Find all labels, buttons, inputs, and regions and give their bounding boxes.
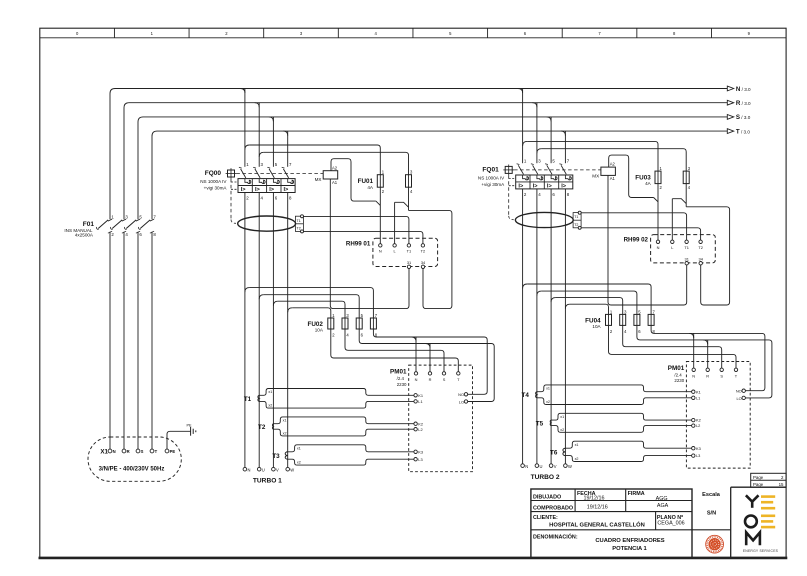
svg-text:I>: I> bbox=[518, 184, 524, 190]
fuse FU01-b bbox=[406, 170, 414, 194]
svg-text:T2: T2 bbox=[698, 245, 703, 250]
sheet reference arrow S / 3.0 bbox=[727, 114, 750, 121]
svg-text:x2: x2 bbox=[268, 404, 272, 408]
svg-text:T3: T3 bbox=[272, 453, 280, 460]
svg-text:T2: T2 bbox=[574, 223, 578, 227]
svg-text:T2: T2 bbox=[421, 249, 426, 254]
svg-text:MX: MX bbox=[315, 177, 322, 182]
title block bbox=[531, 487, 786, 558]
wire PE to earth bbox=[167, 431, 191, 449]
svg-text:I>: I> bbox=[241, 187, 247, 193]
section TURBO 1 feeder group bbox=[200, 145, 494, 485]
svg-text:R: R bbox=[127, 449, 130, 454]
wire T5 x1 to meter K2 bbox=[551, 413, 692, 420]
wire bus drop to FQ00 pole 1 bbox=[240, 89, 245, 167]
wire fuse 6 to meter R and LO bbox=[359, 329, 494, 402]
svg-text:N: N bbox=[657, 245, 660, 250]
wire T3 x1 to meter K3 bbox=[288, 445, 414, 452]
svg-text:FIRMA: FIRMA bbox=[628, 491, 645, 497]
svg-text:S: S bbox=[720, 373, 723, 378]
svg-text:N: N bbox=[692, 373, 695, 378]
svg-text:N: N bbox=[379, 249, 382, 254]
section TURBO 2 feeder group bbox=[478, 141, 772, 481]
svg-text:L1: L1 bbox=[418, 399, 422, 404]
svg-text:I>: I> bbox=[533, 184, 539, 190]
wire MX A1 to relay contact 31 bbox=[608, 175, 687, 305]
svg-text:R: R bbox=[706, 373, 709, 378]
svg-text:K2: K2 bbox=[696, 418, 701, 423]
svg-text:T6: T6 bbox=[550, 449, 558, 456]
svg-text:CLIENTE:: CLIENTE: bbox=[533, 515, 558, 521]
svg-text:L3: L3 bbox=[696, 453, 700, 458]
svg-text:x1: x1 bbox=[575, 443, 579, 447]
manual isolator F01 (INS MANUAL 4x2500A) bbox=[64, 215, 156, 238]
svg-text:U: U bbox=[262, 467, 265, 472]
svg-text:TURBO 2: TURBO 2 bbox=[531, 474, 560, 481]
wire FQ00 pole 2 output to TURBO 1 terminal bbox=[244, 193, 246, 468]
wire T3 x2 to meter L3 bbox=[288, 459, 414, 465]
svg-text:2230: 2230 bbox=[397, 382, 407, 387]
svg-text:PM01: PM01 bbox=[390, 369, 407, 376]
svg-text:T5: T5 bbox=[536, 420, 544, 427]
svg-text:K3: K3 bbox=[418, 449, 423, 454]
wire T4 x2 to meter L1 bbox=[537, 398, 692, 405]
wire fuse 8 to meter N and NO bbox=[373, 329, 487, 394]
svg-text:FQ01: FQ01 bbox=[482, 166, 499, 173]
wire fuse 6 to meter R and LO bbox=[637, 325, 772, 398]
svg-text:K2: K2 bbox=[418, 421, 423, 426]
svg-text:T4: T4 bbox=[522, 392, 530, 399]
svg-text:ENERGY SERVICES: ENERGY SERVICES bbox=[743, 549, 779, 553]
wire tap to power fuse 5 bbox=[537, 291, 637, 314]
svg-text:Page: Page bbox=[753, 475, 764, 480]
svg-text:NS 1000A IV: NS 1000A IV bbox=[200, 179, 227, 184]
earth-leakage relay RH99 01 bbox=[346, 238, 438, 268]
sheet reference arrow T / 3.0 bbox=[727, 128, 750, 135]
wire fuse 4 to meter S bbox=[623, 325, 722, 368]
wire T6 x2 to meter L3 bbox=[565, 456, 691, 462]
wire toroid T1 to relay bbox=[304, 216, 409, 243]
svg-text:S/N: S/N bbox=[707, 511, 716, 517]
fuse FU03-a bbox=[655, 166, 663, 190]
wire bus drop to FQ01 pole 7 bbox=[561, 131, 566, 163]
svg-text:K1: K1 bbox=[696, 389, 701, 394]
svg-text:T / 3.0: T / 3.0 bbox=[736, 128, 750, 135]
svg-text:RH99 02: RH99 02 bbox=[624, 237, 649, 244]
svg-text:W: W bbox=[290, 467, 294, 472]
svg-text:S: S bbox=[141, 449, 144, 454]
wire FU01-a to relay N bbox=[379, 187, 381, 244]
svg-text:FQ00: FQ00 bbox=[205, 170, 222, 177]
svg-text:R / 3.0: R / 3.0 bbox=[736, 100, 751, 107]
svg-text:TURBO 1: TURBO 1 bbox=[253, 478, 282, 485]
svg-text:x1: x1 bbox=[268, 390, 272, 394]
wire phase T from X1 to F01 bbox=[151, 232, 153, 449]
wire T1 x2 to meter L1 bbox=[259, 401, 414, 408]
svg-text:S / 3.0: S / 3.0 bbox=[736, 114, 751, 121]
vigi toroid CT for FQ00 bbox=[238, 215, 304, 233]
svg-text:CUADRO ENFRIADORES: CUADRO ENFRIADORES bbox=[595, 538, 664, 544]
svg-text:10A: 10A bbox=[592, 324, 601, 329]
wire bus drop to FQ01 pole 3 bbox=[532, 103, 537, 164]
wire FQ00 pole 6 output to TURBO 1 terminal bbox=[272, 193, 274, 468]
svg-text:CEGA_006: CEGA_006 bbox=[657, 521, 684, 527]
svg-text:W: W bbox=[568, 464, 572, 469]
svg-text:N: N bbox=[415, 377, 418, 382]
svg-text:LO: LO bbox=[736, 396, 741, 401]
svg-text:A2: A2 bbox=[332, 165, 338, 170]
wire FQ01 pole 2 output to TURBO 2 terminal bbox=[522, 189, 524, 464]
svg-text:+vigi 30mA: +vigi 30mA bbox=[204, 186, 228, 191]
wire tap to power fuse 7 bbox=[245, 288, 374, 318]
svg-text:x1: x1 bbox=[560, 415, 564, 419]
wire tap to power fuse 1 bbox=[288, 308, 331, 318]
svg-text:K1: K1 bbox=[418, 393, 423, 398]
svg-text:/2.4: /2.4 bbox=[397, 376, 405, 381]
svg-text:NO: NO bbox=[736, 389, 742, 394]
svg-text:31: 31 bbox=[407, 260, 411, 265]
approval stamp bbox=[706, 535, 724, 553]
svg-text:DIBUJADO: DIBUJADO bbox=[533, 495, 561, 501]
svg-text:PE: PE bbox=[186, 423, 192, 427]
svg-text:/2.4: /2.4 bbox=[674, 373, 682, 378]
svg-text:x1: x1 bbox=[297, 446, 301, 450]
svg-text:4A: 4A bbox=[367, 185, 374, 190]
fuse FU01-a bbox=[377, 170, 385, 194]
current transformer T3 bbox=[272, 446, 300, 464]
current transformer T2 bbox=[258, 419, 286, 436]
svg-text:PM01: PM01 bbox=[668, 365, 685, 372]
svg-text:4x2500A: 4x2500A bbox=[75, 233, 94, 238]
wire bus drop to FQ01 pole 5 bbox=[547, 117, 552, 163]
svg-text:AGA: AGA bbox=[657, 503, 669, 509]
svg-text:19/12/16: 19/12/16 bbox=[584, 496, 605, 502]
svg-text:L1: L1 bbox=[696, 395, 700, 400]
wire T4 x1 to meter K1 bbox=[537, 385, 692, 392]
svg-text:31: 31 bbox=[685, 256, 689, 261]
circuit breaker FQ01 (NS 1000A IV +vigi 30mA) bbox=[478, 159, 601, 220]
fuse group FU01 feeds bbox=[245, 145, 409, 175]
wire MX A2 to N node bbox=[331, 159, 376, 201]
wire FU01-b to relay L and contact 34 bbox=[672, 184, 729, 305]
wire phase S from X1 to F01 bbox=[137, 232, 139, 449]
svg-text:NO: NO bbox=[458, 392, 464, 397]
wire FU01-a to relay N bbox=[657, 184, 659, 241]
current transformer T1 bbox=[244, 390, 272, 408]
wire bus drop to FQ01 pole 1 bbox=[518, 89, 523, 164]
svg-text:T1: T1 bbox=[297, 219, 301, 223]
wire fuse 2 to meter T bbox=[331, 329, 459, 372]
wire phase N from X1 to F01 bbox=[109, 232, 111, 449]
svg-text:MX: MX bbox=[592, 174, 599, 179]
svg-text:Escala: Escala bbox=[702, 492, 721, 498]
wire fuse 4 to meter S bbox=[345, 329, 444, 372]
svg-text:T1: T1 bbox=[684, 245, 689, 250]
svg-text:15: 15 bbox=[779, 482, 784, 487]
MX shunt trip coil of FQ01 bbox=[592, 162, 615, 182]
wire FQ00 pole 4 output to TURBO 1 terminal bbox=[258, 193, 260, 468]
svg-text:NS 1000A IV: NS 1000A IV bbox=[478, 175, 505, 180]
wire phase R from X1 to F01 bbox=[123, 232, 125, 449]
wire FQ00 pole 8 output to TURBO 1 terminal bbox=[287, 193, 289, 468]
wire phase S bus from F01 to sheet 3.0 bbox=[138, 117, 727, 219]
svg-text:Page: Page bbox=[753, 482, 764, 487]
svg-text:LO: LO bbox=[459, 399, 464, 404]
svg-text:x2: x2 bbox=[283, 432, 287, 436]
current transformer T5 bbox=[536, 415, 564, 432]
svg-text:A2: A2 bbox=[610, 162, 616, 167]
wire FQ01 pole 6 output to TURBO 2 terminal bbox=[550, 189, 552, 464]
svg-text:T: T bbox=[155, 449, 158, 454]
svg-text:U: U bbox=[540, 464, 543, 469]
wire T1 x1 to meter K1 bbox=[259, 389, 414, 396]
wire bus drop to FQ00 pole 5 bbox=[269, 117, 274, 167]
wire tap to power fuse 3 bbox=[273, 301, 345, 318]
label FU01 bbox=[358, 178, 374, 190]
wire toroid T2 to relay bbox=[304, 231, 423, 243]
wire FQ01 pole 4 output to TURBO 2 terminal bbox=[536, 189, 538, 464]
svg-text:N / 3.0: N / 3.0 bbox=[736, 86, 751, 93]
sheet reference arrow R / 3.0 bbox=[727, 100, 751, 107]
circuit breaker FQ00 (NS 1000A IV +vigi 30mA) bbox=[200, 162, 323, 223]
earth / ground symbol PE bbox=[186, 423, 195, 435]
fuse FU03-b bbox=[683, 166, 691, 190]
wire FQ01 pole 8 output to TURBO 2 terminal bbox=[564, 189, 566, 464]
svg-text:x2: x2 bbox=[575, 457, 579, 461]
current transformer T4 bbox=[522, 387, 550, 405]
svg-text:x2: x2 bbox=[297, 461, 301, 465]
svg-text:I>: I> bbox=[269, 187, 275, 193]
terminal block X1 (3/N/PE - 400/230V 50Hz) bbox=[88, 437, 181, 481]
svg-text:T1: T1 bbox=[244, 396, 252, 403]
fuse group FU04 10A bbox=[585, 309, 655, 333]
svg-text:PE: PE bbox=[170, 449, 176, 454]
svg-text:T1: T1 bbox=[407, 249, 412, 254]
svg-text:x1: x1 bbox=[546, 387, 550, 391]
svg-text:x1: x1 bbox=[283, 419, 287, 423]
wire tap to power fuse 1 bbox=[565, 304, 608, 314]
wire bus drop to FQ00 pole 7 bbox=[283, 131, 288, 167]
earth-leakage relay RH99 02 bbox=[624, 235, 716, 265]
svg-text:19/12/16: 19/12/16 bbox=[587, 505, 608, 511]
wire bus drop to FQ00 pole 3 bbox=[255, 103, 260, 167]
svg-text:A1: A1 bbox=[332, 180, 338, 185]
svg-text:I>: I> bbox=[547, 184, 553, 190]
current transformer T6 bbox=[550, 443, 578, 461]
vigi toroid CT for FQ01 bbox=[515, 211, 581, 229]
svg-text:V: V bbox=[276, 467, 279, 472]
svg-text:RH99 01: RH99 01 bbox=[346, 240, 371, 247]
svg-text:N: N bbox=[525, 464, 528, 469]
label FU03 bbox=[635, 174, 651, 186]
sheet reference arrow N / 3.0 bbox=[727, 86, 751, 93]
svg-text:x2: x2 bbox=[560, 428, 564, 432]
svg-text:T1: T1 bbox=[574, 215, 578, 219]
svg-text:4A: 4A bbox=[645, 181, 652, 186]
terminals TURBO 2 bbox=[521, 464, 572, 481]
svg-text:2230: 2230 bbox=[674, 378, 684, 383]
wire tap to power fuse 3 bbox=[551, 298, 623, 315]
svg-text:S: S bbox=[443, 377, 446, 382]
wire fuse 8 to meter N and NO bbox=[651, 325, 765, 390]
svg-text:I>: I> bbox=[255, 187, 261, 193]
wire toroid T1 to relay bbox=[581, 213, 686, 240]
svg-text:L2: L2 bbox=[696, 423, 700, 428]
YEOM logo bbox=[743, 495, 779, 553]
svg-text:+vigi 30mA: +vigi 30mA bbox=[481, 182, 505, 187]
wire T2 x2 to meter L2 bbox=[273, 429, 414, 436]
svg-text:3/N/PE - 400/230V 50Hz: 3/N/PE - 400/230V 50Hz bbox=[99, 466, 165, 472]
MX shunt trip coil of FQ00 bbox=[315, 165, 338, 185]
wire MX A2 to N node bbox=[609, 155, 654, 197]
svg-text:X1: X1 bbox=[100, 449, 108, 456]
svg-text:POTENCIA 1: POTENCIA 1 bbox=[612, 546, 647, 552]
svg-text:AGG: AGG bbox=[656, 496, 668, 502]
wire phase N bus from F01 to sheet 3.0 bbox=[110, 89, 727, 220]
wire T5 x2 to meter L2 bbox=[551, 426, 692, 433]
svg-text:R: R bbox=[429, 377, 432, 382]
svg-text:I>: I> bbox=[561, 184, 567, 190]
svg-text:10A: 10A bbox=[315, 328, 324, 333]
power meter PM01 of TURBO 2 bbox=[668, 362, 750, 469]
wire tap to power fuse 5 bbox=[259, 295, 359, 318]
wire phase T bus from F01 to sheet 3.0 bbox=[152, 131, 727, 219]
wire fuse 2 to meter T bbox=[609, 325, 737, 368]
svg-text:N: N bbox=[248, 467, 251, 472]
svg-text:A1: A1 bbox=[610, 176, 616, 181]
wire MX A1 to relay contact 31 bbox=[330, 179, 409, 309]
wire tap to power fuse 7 bbox=[523, 284, 652, 314]
page index box bbox=[751, 473, 786, 487]
svg-text:HOSPITAL GENERAL CASTELLÓN: HOSPITAL GENERAL CASTELLÓN bbox=[549, 521, 645, 529]
power meter PM01 of TURBO 1 bbox=[390, 365, 472, 472]
svg-text:T2: T2 bbox=[258, 424, 266, 431]
svg-text:T2: T2 bbox=[297, 227, 301, 231]
fuse group FU02 10A bbox=[307, 313, 377, 337]
svg-text:K3: K3 bbox=[696, 446, 701, 451]
svg-text:DENOMINACIÓN:: DENOMINACIÓN: bbox=[533, 533, 578, 541]
wire phase R bus from F01 to sheet 3.0 bbox=[124, 103, 727, 220]
svg-text:N: N bbox=[113, 449, 116, 454]
wire FU01-b to relay L and contact 34 bbox=[395, 187, 452, 308]
svg-text:COMPROBADO: COMPROBADO bbox=[533, 505, 573, 511]
wire T2 x1 to meter K2 bbox=[273, 417, 414, 424]
svg-text:I>: I> bbox=[284, 187, 290, 193]
svg-text:L3: L3 bbox=[418, 457, 422, 462]
wire toroid T2 to relay bbox=[581, 228, 700, 240]
wire T6 x1 to meter K3 bbox=[565, 441, 691, 448]
svg-text:x2: x2 bbox=[546, 400, 550, 404]
fuse group FU03 feeds bbox=[523, 141, 687, 171]
svg-text:V: V bbox=[554, 464, 557, 469]
terminals TURBO 1 bbox=[243, 467, 294, 484]
svg-text:L2: L2 bbox=[418, 427, 422, 432]
